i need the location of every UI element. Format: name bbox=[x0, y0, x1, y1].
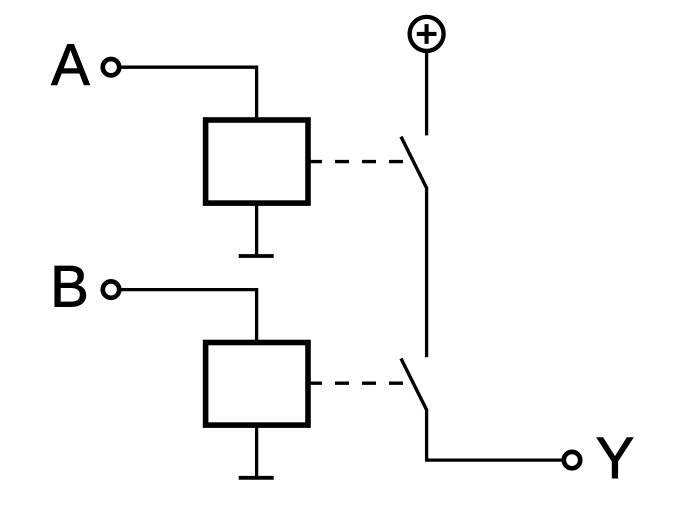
dashed link K2 to S2 bbox=[308, 382, 403, 385]
relay coil K1 bbox=[206, 120, 308, 203]
ground (K1) bbox=[239, 254, 274, 258]
svg-text:B: B bbox=[50, 255, 89, 320]
wire K1 to ground bbox=[255, 203, 258, 256]
wire K2 to ground bbox=[255, 425, 258, 478]
ground (K2) bbox=[239, 476, 274, 480]
dashed link K1 to S1 bbox=[308, 160, 403, 163]
terminal B bbox=[103, 281, 119, 297]
svg-text:Y: Y bbox=[596, 426, 635, 491]
terminal A bbox=[103, 59, 119, 75]
terminal Y bbox=[564, 452, 580, 468]
wire S1 to S2 bbox=[425, 187, 428, 357]
wire A input bbox=[121, 67, 257, 120]
switch S2 blade bbox=[401, 359, 427, 410]
relay coil K2 bbox=[206, 343, 308, 426]
wire S2 to Y bbox=[427, 409, 563, 460]
power supply + bbox=[410, 17, 444, 51]
switch S1 blade bbox=[401, 137, 427, 188]
wire B input bbox=[121, 290, 257, 343]
wire supply to S1 bbox=[425, 53, 428, 136]
svg-text:A: A bbox=[51, 33, 90, 98]
